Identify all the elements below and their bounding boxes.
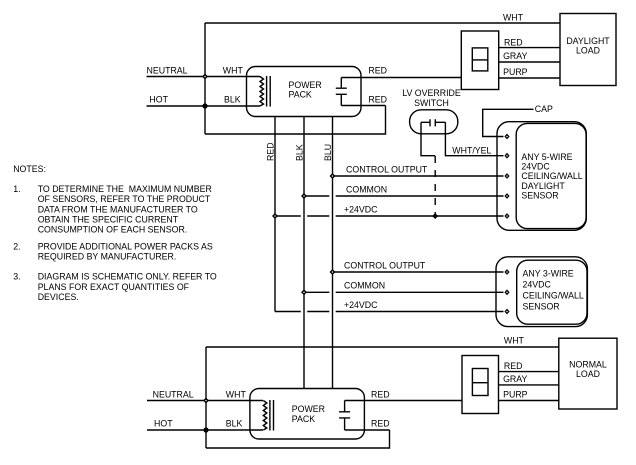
node BLU drop label [323, 144, 333, 161]
wire RED output bottom of U4 [345, 429, 390, 431]
node U4 label POWER PACK [292, 404, 325, 424]
node A junction diamond neutral-top [202, 74, 208, 80]
node U3 terminal 2 [504, 289, 509, 295]
svg-text:RED: RED [371, 419, 390, 429]
svg-text:OF SENSORS, REFER TO THE PRODU: OF SENSORS, REFER TO THE PRODUCT [38, 194, 211, 204]
svg-text:WHT: WHT [226, 389, 247, 399]
node junction diamond neutral-bottom [203, 398, 209, 404]
wire COMMON 2 (gap at BLU) [304, 291, 504, 293]
svg-text:ANY 3-WIRE: ANY 3-WIRE [523, 268, 574, 278]
svg-text:SWITCH: SWITCH [414, 98, 449, 108]
wire wrap bottom of top section [205, 106, 386, 135]
wire NEUTRAL top [147, 76, 261, 78]
svg-text:SENSOR: SENSOR [521, 190, 558, 200]
node WHT label top [503, 12, 524, 22]
node BLK drop label [294, 144, 304, 161]
wire wrap bottom of bottom section [206, 430, 390, 448]
node junction diamond BLU control output 1 [330, 173, 336, 179]
node junction diamond BLK common 1 [301, 193, 307, 199]
transformer T2 core bars [270, 400, 274, 431]
svg-text:3.: 3. [13, 272, 20, 282]
node RED label U4 bottom out [371, 419, 390, 429]
wire RED K2 to normal load [499, 371, 560, 373]
svg-text:RED: RED [368, 95, 387, 105]
node U2 terminal 1 [504, 134, 509, 140]
wire PURP K1 to daylight load [499, 77, 560, 79]
LV override switch S1 label [402, 88, 461, 108]
svg-text:CEILING/WALL: CEILING/WALL [521, 171, 582, 181]
svg-text:2.: 2. [13, 241, 20, 251]
wire CAP stub [483, 109, 534, 136]
svg-text:PROVIDE ADDITIONAL POWER PACKS: PROVIDE ADDITIONAL POWER PACKS AS [38, 241, 213, 251]
node WHT label bottom feed [504, 336, 525, 346]
wire GRAY K1 to daylight load [499, 61, 560, 63]
node HOT label [149, 95, 168, 105]
wire WHT bottom feed [206, 346, 559, 348]
svg-text:BLU: BLU [323, 144, 333, 161]
svg-text:TO DETERMINE THE MAXIMUM NUMB: TO DETERMINE THE MAXIMUM NUMBER [38, 184, 212, 194]
svg-text:PLANS FOR EXACT QUANTITIES OF: PLANS FOR EXACT QUANTITIES OF [38, 282, 190, 292]
svg-text:+24VDC: +24VDC [344, 300, 378, 310]
svg-text:WHT: WHT [223, 65, 244, 75]
svg-text:PACK: PACK [292, 414, 315, 424]
svg-text:COMMON: COMMON [346, 184, 387, 194]
svg-text:SENSOR: SENSOR [523, 302, 560, 312]
wire NEUTRAL bottom [147, 400, 263, 402]
sensor U3 inner box [517, 260, 587, 324]
wire HOT bottom [147, 429, 263, 431]
wire CONTROL OUTPUT 2 [333, 271, 504, 273]
svg-text:LV OVERRIDE: LV OVERRIDE [402, 88, 461, 98]
wire RED output top of U4 [345, 400, 462, 402]
node BLK label bottom [226, 419, 243, 429]
svg-text:BLK: BLK [294, 144, 304, 161]
node U2 terminal 3 [504, 173, 509, 179]
wire BLU drop vertical [332, 117, 334, 389]
node NEUTRAL label [147, 65, 188, 75]
svg-text:NORMAL: NORMAL [569, 360, 607, 370]
svg-text:RED: RED [265, 142, 275, 161]
node U2 terminal 2 [504, 153, 509, 159]
relay K1 inner rocker [472, 48, 488, 71]
LV override switch S1 contacts [421, 119, 445, 126]
node BLK label [224, 95, 241, 105]
svg-text:BLK: BLK [226, 419, 243, 429]
svg-text:LOAD: LOAD [576, 46, 600, 56]
svg-text:OBTAIN THE SPECIFIC CURRENT: OBTAIN THE SPECIFIC CURRENT [38, 215, 179, 225]
wire BLK drop vertical [303, 117, 305, 389]
svg-text:POWER: POWER [289, 80, 322, 90]
svg-text:CONTROL OUTPUT: CONTROL OUTPUT [346, 164, 428, 174]
node U3 terminal 1 [504, 269, 509, 275]
normal load box [559, 338, 617, 409]
node junction diamond RED +24VDC 1 [272, 213, 278, 219]
node U2 terminal 4 [504, 193, 509, 199]
svg-text:GRAY: GRAY [503, 51, 527, 61]
svg-text:CONSUMPTION OF EACH SENSOR.: CONSUMPTION OF EACH SENSOR. [38, 225, 188, 235]
svg-text:DEVICES.: DEVICES. [38, 292, 79, 302]
relay K2 inner rocker [472, 369, 488, 396]
wire vertical feed left [204, 23, 206, 134]
svg-text:1.: 1. [13, 184, 20, 194]
transformer T1 coil [260, 77, 264, 107]
node WHT label [223, 65, 244, 75]
wire S1 left lead [421, 122, 435, 155]
wire +24VDC 1 (gaps at BLK and BLU) [275, 215, 504, 217]
svg-text:DAYLIGHT: DAYLIGHT [566, 36, 610, 46]
node junction diamond dashed to +24VDC [432, 213, 438, 219]
svg-text:REQUIRED BY MANUFACTURER.: REQUIRED BY MANUFACTURER. [38, 252, 177, 262]
svg-text:WHT: WHT [503, 12, 524, 22]
svg-text:PURP: PURP [503, 390, 528, 400]
svg-text:COMMON: COMMON [344, 281, 385, 291]
svg-text:POWER: POWER [292, 404, 325, 414]
transformer T2 coil [263, 401, 267, 431]
node RED label U1 bottom out [368, 95, 387, 105]
svg-text:GRAY: GRAY [503, 374, 527, 384]
svg-text:PACK: PACK [289, 90, 312, 100]
wire S1 dashed drop [434, 156, 436, 216]
node HOT label bottom [154, 419, 173, 429]
node B junction dot hot-top [202, 103, 207, 108]
node RED label U4 top out [371, 389, 390, 399]
wire RED output bottom of U1 [341, 105, 385, 107]
node U3 terminal 3 [504, 309, 509, 315]
node junction diamond BLU control output 2 [330, 269, 336, 275]
svg-text:ANY 5-WIRE: ANY 5-WIRE [521, 152, 572, 162]
capacitor C1 in power pack [336, 78, 347, 106]
relay K1 box [461, 31, 498, 90]
power pack U1 box [247, 67, 362, 117]
wire S1 right lead WHT/YEL [445, 122, 503, 155]
svg-text:DATA FROM THE MANUFACTURER TO: DATA FROM THE MANUFACTURER TO [38, 204, 198, 214]
relay K2 box [462, 356, 499, 414]
sensor U2 inner box [516, 123, 586, 228]
transformer T1 core bars [267, 76, 271, 107]
svg-text:DAYLIGHT: DAYLIGHT [521, 181, 565, 191]
svg-text:CEILING/WALL: CEILING/WALL [523, 291, 584, 301]
svg-text:NOTES:: NOTES: [13, 164, 46, 174]
svg-text:LOAD: LOAD [576, 369, 600, 379]
svg-text:WHT: WHT [504, 336, 525, 346]
node junction dot hot-bottom [203, 427, 208, 432]
node U1 label POWER PACK [289, 80, 322, 100]
node junction diamond BLK common 2 [301, 289, 307, 295]
svg-text:DIAGRAM IS SCHEMATIC ONLY. REF: DIAGRAM IS SCHEMATIC ONLY. REFER TO [38, 272, 217, 282]
svg-text:RED: RED [504, 37, 523, 47]
svg-text:PURP: PURP [503, 67, 528, 77]
svg-text:24VDC: 24VDC [523, 280, 552, 290]
svg-text:RED: RED [368, 66, 387, 76]
wire +24VDC 2 from RED elbow (gaps at BLK and BLU) [275, 311, 504, 313]
capacitor C2 in power pack [339, 401, 350, 431]
sensor U2 outer boundary [497, 122, 586, 231]
node NEUTRAL label bottom [153, 389, 194, 399]
wire vertical feed left bottom [205, 347, 207, 448]
svg-text:BLK: BLK [224, 95, 241, 105]
svg-text:NEUTRAL: NEUTRAL [153, 389, 194, 399]
node normal load label [569, 360, 607, 380]
power pack U4 box [250, 389, 365, 440]
wire CONTROL OUTPUT 1 [333, 175, 504, 177]
wire HOT top [147, 105, 261, 107]
wire PURP K2 to normal load [499, 400, 560, 402]
sensor U3 outer boundary [496, 257, 587, 327]
node WHT/YEL label [452, 145, 491, 155]
svg-text:WHT/YEL: WHT/YEL [452, 145, 491, 155]
svg-text:RED: RED [371, 389, 390, 399]
daylight load box [560, 14, 616, 86]
node WHT label bottom [226, 389, 247, 399]
node RED label U1 top out [368, 66, 387, 76]
node CAP label [535, 104, 553, 114]
LV override switch S1 box [410, 110, 458, 134]
wire WHT top feed [205, 22, 560, 24]
svg-text:+24VDC: +24VDC [344, 204, 378, 214]
node daylight load label [566, 36, 610, 56]
wire RED drop vertical [274, 117, 276, 312]
svg-text:RED: RED [504, 361, 523, 371]
node U2 label [521, 152, 582, 200]
node U3 label [523, 268, 584, 311]
wire COMMON 1 (gap at BLU) [304, 195, 504, 197]
svg-text:CONTROL OUTPUT: CONTROL OUTPUT [344, 260, 426, 270]
svg-text:HOT: HOT [154, 419, 173, 429]
notes text block [13, 164, 217, 302]
svg-text:24VDC: 24VDC [521, 162, 550, 172]
svg-text:NEUTRAL: NEUTRAL [147, 65, 188, 75]
wire GRAY K2 to normal load [499, 384, 560, 386]
wire RED K1 to daylight load [499, 47, 560, 49]
node U2 terminal 5 [504, 213, 509, 219]
svg-text:HOT: HOT [149, 95, 168, 105]
svg-text:CAP: CAP [535, 104, 553, 114]
node RED drop label [265, 142, 275, 161]
wire RED output top of U1 [341, 77, 461, 79]
